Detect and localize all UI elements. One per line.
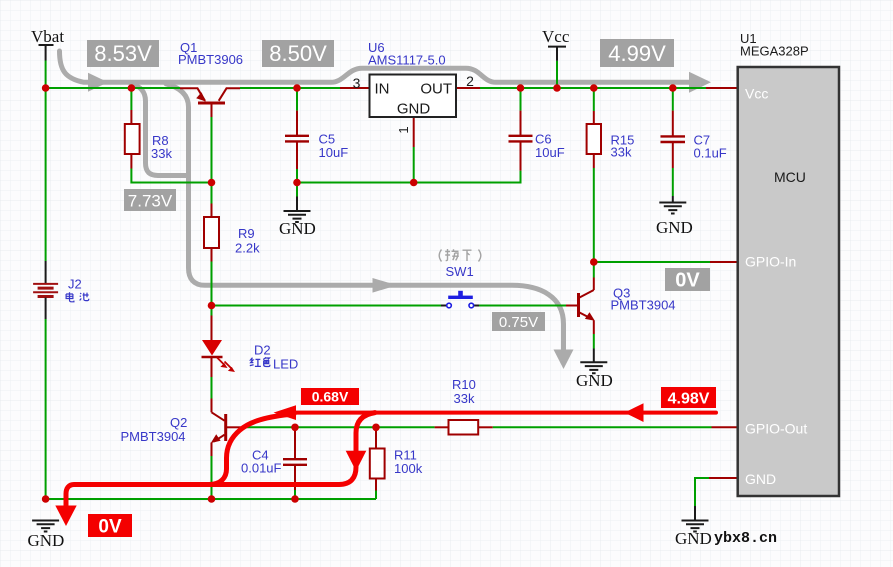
note (按下) pressed bbox=[439, 249, 481, 262]
svg-text:GND: GND bbox=[745, 471, 776, 487]
wire C7 bottom lead to GND bbox=[672, 143, 674, 168]
node voltage label 0.68V bbox=[301, 388, 359, 405]
svg-text:33k: 33k bbox=[611, 145, 632, 160]
wire gray current-flow main path Vbat to Vcc bbox=[60, 51, 702, 82]
wire SW1 terminal stubs (black) bbox=[441, 305, 447, 307]
wire top rail Vbat-junction to Q1 emitter bbox=[46, 87, 180, 89]
arrow Q1 emitter (PNP into base) bbox=[196, 92, 206, 101]
node voltage label 0V at ground bbox=[88, 514, 132, 537]
wire C5 top lead bbox=[296, 90, 298, 111]
resistor R11 bbox=[370, 449, 385, 479]
svg-text:4.99V: 4.99V bbox=[608, 41, 666, 66]
wire Q1 base down to 7.73V node bbox=[211, 105, 213, 118]
svg-text:PMBT3904: PMBT3904 bbox=[121, 429, 186, 444]
wire pin lead R10 left bbox=[435, 426, 449, 428]
ground symbol under Q3 bbox=[580, 362, 607, 373]
svg-text:7.73V: 7.73V bbox=[128, 192, 173, 211]
glyph 色 bbox=[263, 357, 270, 366]
capacitor C6 bbox=[509, 136, 533, 142]
wire C5 GND stem bbox=[296, 183, 298, 197]
arrowhead gray into MCU Vcc bbox=[689, 72, 711, 93]
node voltage label 0V at GPIO-In bbox=[665, 268, 710, 291]
switch SW1 (pushbutton) bbox=[447, 291, 474, 308]
wire R11 top lead bbox=[375, 427, 377, 448]
wire D2 bottom lead to Q2 collector bbox=[211, 357, 213, 377]
wire gray branch to SW1 row and Q3 base bbox=[166, 84, 564, 352]
wire C4 bottom lead bbox=[294, 466, 296, 490]
svg-text:Vcc: Vcc bbox=[542, 27, 570, 46]
wire U6 OUT to MCU Vcc (green) bbox=[480, 87, 706, 89]
svg-text:GPIO-In: GPIO-In bbox=[745, 254, 796, 270]
svg-text:SW1: SW1 bbox=[446, 264, 474, 279]
svg-text:4.98V: 4.98V bbox=[668, 391, 710, 408]
transistor Q2 PMBT3904 (NPN mirrored) bbox=[212, 412, 226, 441]
wire R15 bottom lead down to GPIO-In row bbox=[593, 154, 595, 168]
svg-text:33k: 33k bbox=[454, 391, 475, 406]
wire SW1 row left segment bbox=[212, 305, 442, 307]
wire Vcc stub (green) bbox=[556, 61, 558, 88]
wire MCU GND pin to ground bbox=[709, 477, 738, 479]
wire D2 top lead bbox=[211, 306, 213, 316]
capacitor C7 bbox=[661, 136, 686, 142]
svg-text:Q2: Q2 bbox=[170, 415, 187, 430]
resistor R9 bbox=[204, 217, 219, 248]
wire U6 GND pin lead bbox=[413, 117, 415, 147]
svg-text:0V: 0V bbox=[98, 517, 122, 538]
arrowhead red down at 0V ground bbox=[55, 506, 76, 527]
wire R8 top lead bbox=[130, 90, 132, 110]
svg-text:33k: 33k bbox=[151, 146, 172, 161]
resistor R10 bbox=[449, 420, 479, 435]
svg-text:PMBT3906: PMBT3906 bbox=[178, 52, 243, 67]
arrowhead red at 0.68V bbox=[274, 405, 297, 420]
svg-text:Vbat: Vbat bbox=[31, 27, 64, 46]
svg-text:GPIO-Out: GPIO-Out bbox=[745, 421, 807, 437]
svg-text:GND: GND bbox=[397, 101, 431, 118]
battery J2 bbox=[33, 261, 58, 319]
svg-text:AMS1117-5.0: AMS1117-5.0 bbox=[368, 53, 446, 68]
ground symbol under C5 bbox=[284, 211, 311, 222]
svg-text:GND: GND bbox=[576, 371, 613, 390]
svg-text:OUT: OUT bbox=[420, 81, 452, 98]
wire pin lead MCU Vcc (red) bbox=[706, 87, 738, 89]
arrow Q2 emitter bbox=[211, 434, 221, 443]
svg-text:Vcc: Vcc bbox=[745, 86, 768, 102]
svg-text:ybx8.cn: ybx8.cn bbox=[714, 530, 777, 547]
transistor Q3 PMBT3904 (NPN) bbox=[579, 290, 594, 319]
svg-text:0.1uF: 0.1uF bbox=[694, 146, 727, 161]
svg-text:8.50V: 8.50V bbox=[269, 41, 327, 66]
svg-text:100k: 100k bbox=[394, 461, 423, 476]
wire C6 top lead bbox=[520, 90, 522, 111]
svg-text:GND: GND bbox=[279, 219, 316, 238]
wire Q3 collector lead bbox=[593, 262, 595, 278]
wire gray branch through R8 bbox=[131, 84, 186, 176]
svg-text:R10: R10 bbox=[452, 377, 476, 392]
power flag Vcc bbox=[548, 47, 566, 61]
svg-text:GND: GND bbox=[656, 218, 693, 237]
wire Q2 base lead bbox=[227, 426, 242, 428]
capacitor C4 bbox=[283, 459, 307, 465]
power flag Vbat bbox=[39, 45, 54, 61]
node voltage label 0.75V bbox=[492, 312, 545, 331]
arrowhead red down at R11 bbox=[346, 451, 367, 471]
svg-text:10uF: 10uF bbox=[319, 145, 349, 160]
glyph 红 bbox=[250, 358, 261, 367]
arrow Q3 emitter bbox=[585, 312, 595, 321]
wire pin lead U6 OUT (red) bbox=[456, 87, 480, 89]
wire R9 bottom lead to SW1 row node bbox=[211, 248, 213, 262]
svg-text:R9: R9 bbox=[238, 226, 255, 241]
svg-text:0.75V: 0.75V bbox=[499, 314, 538, 331]
wire Vbat stub (green) bbox=[45, 61, 47, 89]
MCU U1 MEGA328P bbox=[738, 67, 839, 496]
glyph 电 bbox=[66, 292, 74, 302]
wire C4 top lead bbox=[294, 427, 296, 458]
svg-text:GND: GND bbox=[675, 529, 712, 548]
wire red S-curve into Q2 base region bbox=[209, 414, 294, 485]
glyph 下 bbox=[463, 250, 472, 261]
wire R10 to MCU GPIO-Out bbox=[493, 426, 712, 428]
glyph 按 bbox=[445, 249, 459, 261]
ground symbol under MCU GND bbox=[682, 521, 709, 532]
svg-text:8.53V: 8.53V bbox=[94, 41, 152, 66]
svg-text:0V: 0V bbox=[675, 270, 700, 292]
resistor R8 bbox=[125, 124, 140, 154]
svg-text:0.68V: 0.68V bbox=[312, 389, 349, 405]
resistor R15 bbox=[587, 124, 601, 154]
wire red current-flow main from GPIO-Out bbox=[283, 411, 716, 415]
node voltage label 7.73V bbox=[124, 189, 176, 211]
arrowhead gray on SW1 row bbox=[373, 278, 398, 293]
svg-text:MEGA328P: MEGA328P bbox=[740, 44, 809, 59]
svg-text:10uF: 10uF bbox=[535, 145, 565, 160]
wire left battery rail top (green) bbox=[45, 88, 47, 261]
wire C7 top lead bbox=[672, 90, 674, 111]
wire Q3 emitter to GND bbox=[593, 321, 595, 335]
wire red branch down at R11 and along ground rail to 0V bbox=[66, 413, 375, 508]
node voltage label 8.53V bbox=[87, 40, 159, 67]
wire left battery rail bottom (green) bbox=[45, 319, 47, 499]
wire Q2 base to R10 bbox=[242, 426, 435, 428]
wire R9 top lead bbox=[211, 183, 213, 204]
capacitor C5 bbox=[285, 136, 309, 142]
ground symbol left rail bbox=[32, 521, 59, 532]
regulator U6 AMS1117-5.0 bbox=[370, 75, 457, 118]
wire Q2 emitter down to ground rail bbox=[211, 443, 213, 457]
LED D2 bbox=[202, 340, 236, 372]
wire R15 top lead bbox=[593, 90, 595, 111]
arrowhead gray down at Q3 base bbox=[554, 350, 574, 370]
node voltage label 8.50V bbox=[262, 40, 334, 67]
ground symbol under C7 bbox=[659, 203, 686, 214]
wire R11 bottom lead bbox=[375, 479, 377, 491]
glyph 池 bbox=[80, 293, 89, 301]
wire capacitor ground bus bbox=[297, 171, 521, 183]
arrowhead gray right after Vbat bbox=[88, 73, 108, 92]
node voltage label 4.98V bbox=[661, 387, 716, 408]
node voltage label 4.99V bbox=[600, 39, 674, 67]
svg-text:1: 1 bbox=[396, 126, 411, 133]
wire R8 bottom lead to 7.73V node bbox=[130, 154, 132, 169]
svg-text:LED: LED bbox=[273, 357, 298, 372]
svg-text:3: 3 bbox=[353, 75, 361, 91]
wire bottom ground rail bbox=[46, 498, 376, 500]
wire pin lead R10 right bbox=[478, 426, 493, 428]
wire C6 bottom lead bbox=[520, 143, 522, 171]
wire C5 bottom lead bbox=[296, 143, 298, 170]
svg-text:GND: GND bbox=[28, 531, 65, 550]
wire SW1 to Q3 base bbox=[479, 305, 566, 307]
svg-text:PMBT3904: PMBT3904 bbox=[611, 298, 676, 313]
transistor Q1 PMBT3906 (PNP) bbox=[180, 88, 240, 103]
wire GPIO-In row bbox=[594, 261, 710, 263]
svg-text:2: 2 bbox=[466, 73, 474, 89]
svg-text:MCU: MCU bbox=[774, 169, 806, 185]
svg-text:IN: IN bbox=[375, 81, 390, 98]
svg-text:D2: D2 bbox=[254, 343, 271, 358]
svg-text:J2: J2 bbox=[68, 277, 82, 292]
wire pin lead U6 IN (red) bbox=[340, 87, 370, 89]
arrowhead red at 4.98V bbox=[625, 403, 644, 422]
wire Q1 collector to C5 node bbox=[240, 87, 340, 89]
svg-text:2.2k: 2.2k bbox=[235, 241, 260, 256]
svg-text:0.01uF: 0.01uF bbox=[241, 461, 282, 476]
